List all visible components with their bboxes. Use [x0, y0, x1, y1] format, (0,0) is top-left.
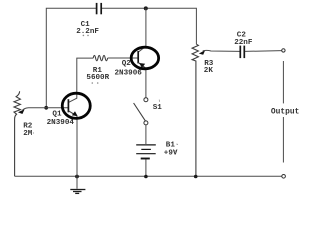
wire ground stem: [76, 176, 78, 188]
wire R2 wiper: [23, 108, 47, 110]
arrowhead Q2 emitter (PNP, points to base): [139, 63, 145, 68]
node junction left rail / Q1 base: [44, 106, 48, 110]
wire output vertical upper: [282, 61, 284, 103]
label B1: [164, 142, 178, 158]
transistor Q1 base bar: [67, 99, 69, 112]
wire Q2 collector up: [138, 8, 146, 52]
transistor Q2 base bar: [137, 51, 139, 63]
svg-text:2K: 2K: [204, 67, 214, 75]
wire R1 to Q2 base: [108, 57, 139, 59]
node R3 / bottom rail: [194, 175, 198, 179]
resistor R1: [93, 55, 107, 60]
label C2: [234, 31, 253, 47]
svg-text:5600R: 5600R: [86, 74, 109, 82]
svg-text:2.2nF: 2.2nF: [76, 28, 99, 36]
svg-text:S1: S1: [153, 104, 163, 112]
wire output vertical lower: [282, 117, 284, 163]
wire Q1 collector to R1: [69, 58, 94, 102]
resistor R2: [14, 91, 20, 176]
label R2: [23, 123, 34, 138]
arrowhead R3 wiper: [199, 50, 206, 55]
node battery / bottom rail: [144, 175, 148, 179]
svg-text:22nF: 22nF: [234, 39, 253, 47]
output terminal top: [282, 49, 285, 52]
transistor Q2 circle: [131, 47, 159, 69]
switch S1 top contact: [144, 98, 148, 102]
arrowhead R2 wiper: [18, 109, 25, 114]
svg-text:2M: 2M: [23, 130, 33, 138]
wire battery to bottom rail: [145, 160, 147, 177]
arrowhead Q1 emitter: [72, 111, 78, 116]
battery B1: [136, 145, 156, 159]
wire bottom rail: [15, 175, 282, 177]
switch S1 blade: [134, 103, 146, 121]
label R1: [86, 67, 109, 84]
transistor Q1 circle: [62, 93, 90, 118]
wire Q1 base: [46, 107, 68, 109]
label R3: [204, 60, 214, 75]
node junction top rail / Q2 collector: [144, 6, 148, 10]
transistor Q2 emitter: [138, 63, 146, 69]
svg-text:C2: C2: [237, 31, 247, 39]
wire R3 wiper to C2: [203, 50, 240, 51]
transistor Q1 emitter: [69, 111, 77, 116]
svg-text:B1: B1: [166, 142, 176, 150]
svg-text:Output: Output: [271, 108, 299, 117]
svg-text:+9V: +9V: [164, 150, 178, 158]
label Q2: [115, 60, 143, 78]
wire Q2 emitter down to S1: [145, 68, 147, 97]
label Q1: [47, 110, 75, 127]
label S1: [153, 100, 163, 112]
label C1 value: [76, 21, 99, 36]
output terminal bottom: [282, 175, 286, 179]
wire top rail right segment: [102, 8, 197, 44]
wire C2 to output: [245, 50, 282, 53]
svg-text:Q1: Q1: [52, 110, 62, 118]
svg-text:2N3904: 2N3904: [47, 119, 75, 127]
wire top rail left segment: [46, 8, 96, 108]
ground: [70, 190, 85, 194]
wire Q1 emitter down: [76, 116, 78, 176]
switch S1 bottom contact: [144, 121, 148, 125]
svg-text:2N3906: 2N3906: [115, 70, 143, 78]
capacitor C1: [97, 3, 102, 14]
wire S1 to battery: [145, 125, 147, 144]
capacitor C2: [240, 46, 244, 59]
svg-text:Q2: Q2: [122, 60, 132, 68]
node ground junction: [75, 175, 79, 179]
resistor R3: [192, 44, 198, 176]
